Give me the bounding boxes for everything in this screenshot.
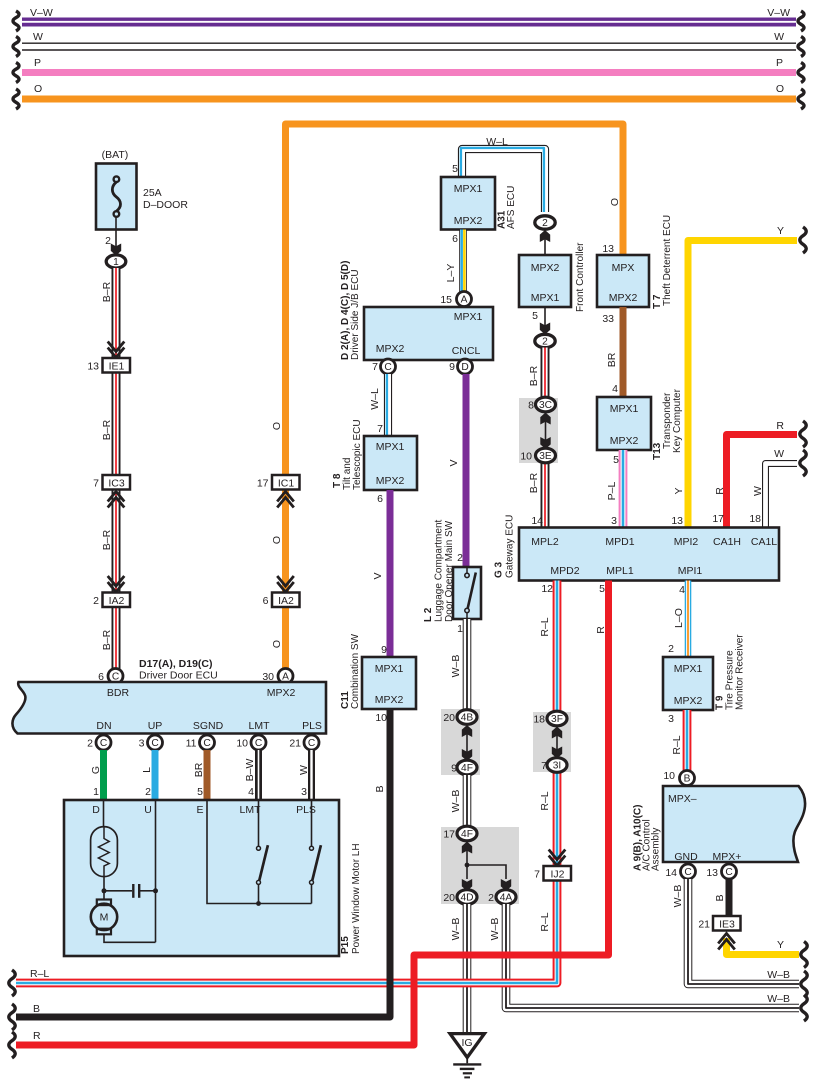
svg-text:3E: 3E <box>539 451 552 462</box>
thermistor (breaker) <box>91 800 118 900</box>
node C pin10 LMT <box>236 735 266 750</box>
svg-text:CNCL: CNCL <box>452 345 481 357</box>
svg-text:25A: 25A <box>143 187 162 199</box>
svg-text:W–B: W–B <box>672 885 684 908</box>
junction 4F 4D 4A <box>441 826 519 904</box>
svg-text:W: W <box>752 486 764 496</box>
junction 4B 4F <box>441 709 480 775</box>
svg-text:MPX2: MPX2 <box>531 262 560 274</box>
svg-text:W: W <box>774 31 784 43</box>
svg-text:4: 4 <box>679 584 685 596</box>
svg-text:B–R: B–R <box>528 365 540 386</box>
svg-text:2: 2 <box>542 337 548 348</box>
svg-text:2: 2 <box>87 738 93 750</box>
svg-text:6: 6 <box>377 493 383 505</box>
svg-text:C: C <box>308 738 315 749</box>
svg-text:Assembly: Assembly <box>651 828 662 871</box>
op T13 Transponder Key Computer <box>597 388 683 460</box>
svg-text:Driver Side J/B ECU: Driver Side J/B ECU <box>350 269 361 360</box>
node C pin21 PLS <box>289 735 319 750</box>
svg-text:A: A <box>461 295 468 306</box>
svg-text:MPX1: MPX1 <box>375 663 404 675</box>
wire B C11 to left bus <box>9 709 390 1030</box>
wire V CNCL to L2 <box>448 374 466 567</box>
svg-text:2: 2 <box>93 595 99 607</box>
svg-text:MPD1: MPD1 <box>605 536 634 548</box>
svg-text:C: C <box>255 738 262 749</box>
svg-text:33: 33 <box>602 313 614 325</box>
node C pin7 J/B <box>372 359 395 374</box>
svg-text:GND: GND <box>674 851 698 863</box>
svg-text:2: 2 <box>542 218 548 229</box>
ground IG <box>450 1034 484 1078</box>
svg-text:2: 2 <box>457 552 463 564</box>
svg-text:18: 18 <box>749 513 761 525</box>
svg-text:Theft Deterrent ECU: Theft Deterrent ECU <box>662 215 673 306</box>
svg-text:B–R: B–R <box>101 281 113 302</box>
connector IE3 <box>698 916 740 950</box>
op A31 AFS ECU box <box>441 177 517 230</box>
svg-text:M: M <box>100 912 109 924</box>
svg-text:1: 1 <box>457 623 463 635</box>
connector IC1 <box>257 422 300 508</box>
op Driver Side J/B ECU <box>340 261 493 360</box>
op A/C Control Assembly <box>633 786 806 871</box>
wire G green <box>90 750 104 800</box>
svg-text:20: 20 <box>443 892 455 904</box>
svg-text:IE1: IE1 <box>109 361 125 373</box>
svg-text:IC1: IC1 <box>278 478 295 490</box>
svg-text:R–L: R–L <box>539 912 551 931</box>
svg-text:R: R <box>595 626 607 634</box>
svg-text:R: R <box>714 487 726 495</box>
svg-text:CA1L: CA1L <box>751 536 777 548</box>
svg-text:IE3: IE3 <box>719 919 735 931</box>
connector IC3 <box>93 475 130 508</box>
svg-text:2: 2 <box>105 235 111 247</box>
bus O <box>13 83 804 109</box>
svg-text:B–R: B–R <box>528 472 540 493</box>
svg-text:C: C <box>725 867 732 878</box>
svg-text:7: 7 <box>541 760 547 772</box>
svg-text:9: 9 <box>449 361 455 373</box>
wire R-L MPD2 to left bus <box>9 581 557 997</box>
switch LMT <box>257 800 268 904</box>
svg-text:D–DOOR: D–DOOR <box>143 199 188 211</box>
svg-text:3: 3 <box>139 738 145 750</box>
svg-text:MPX2: MPX2 <box>376 343 405 355</box>
svg-text:R: R <box>776 420 784 432</box>
node A pin30 driver door ECU <box>262 669 293 684</box>
svg-text:3: 3 <box>668 713 674 725</box>
fuse 25A D-DOOR <box>96 149 188 268</box>
svg-text:4: 4 <box>612 383 618 395</box>
svg-text:D: D <box>461 362 468 373</box>
connector 2 oval top <box>535 216 555 255</box>
svg-text:B–R: B–R <box>101 419 113 440</box>
svg-text:MPX–: MPX– <box>668 793 697 805</box>
svg-text:MPX2: MPX2 <box>267 687 296 699</box>
switch PLS <box>310 800 321 904</box>
svg-text:W–B: W–B <box>450 790 462 813</box>
bus V-W <box>13 7 804 31</box>
svg-text:D17(A), D19(C): D17(A), D19(C) <box>139 658 213 670</box>
connector IE1 <box>87 342 130 373</box>
wire E inside <box>207 800 312 904</box>
wire W-B GND to right edge <box>672 879 807 997</box>
svg-text:O: O <box>776 83 784 95</box>
svg-text:18: 18 <box>533 714 545 726</box>
svg-text:9: 9 <box>451 763 457 775</box>
svg-text:C: C <box>151 738 158 749</box>
svg-text:3F: 3F <box>551 714 563 725</box>
node B pin10 A/C <box>663 770 694 786</box>
svg-text:O: O <box>609 198 621 206</box>
svg-text:2: 2 <box>668 643 674 655</box>
wire W-L A31 to connector 2 <box>452 136 545 212</box>
connector IA2 left <box>93 576 130 607</box>
svg-text:MPI2: MPI2 <box>674 536 699 548</box>
svg-text:P: P <box>34 57 41 69</box>
svg-text:10: 10 <box>375 712 387 724</box>
svg-text:1: 1 <box>113 257 119 268</box>
wire U inside <box>155 800 157 942</box>
svg-text:D: D <box>92 804 100 816</box>
svg-text:4F: 4F <box>461 763 473 774</box>
svg-text:7: 7 <box>93 478 99 490</box>
svg-text:MPX2: MPX2 <box>609 292 638 304</box>
wire BR brown <box>602 307 623 397</box>
svg-text:13: 13 <box>87 361 99 373</box>
junction dot LMT bottom <box>256 901 261 906</box>
connector IJ2 <box>534 850 571 881</box>
svg-text:MPX2: MPX2 <box>454 215 483 227</box>
svg-text:Power Window Motor LH: Power Window Motor LH <box>351 843 362 954</box>
wire BR brown <box>193 750 207 800</box>
svg-text:MPX1: MPX1 <box>531 292 560 304</box>
svg-text:8: 8 <box>528 400 534 412</box>
svg-text:MPX1: MPX1 <box>674 663 703 675</box>
svg-text:MPX1: MPX1 <box>454 311 483 323</box>
svg-text:W–B: W–B <box>767 993 790 1005</box>
svg-text:MPX1: MPX1 <box>376 441 405 453</box>
svg-text:17: 17 <box>257 478 269 490</box>
svg-text:5: 5 <box>452 163 458 175</box>
svg-text:13: 13 <box>706 867 718 879</box>
svg-text:P–L: P–L <box>606 482 618 501</box>
svg-text:3C: 3C <box>539 400 552 411</box>
svg-text:R–L: R–L <box>671 735 683 754</box>
svg-text:MPX+: MPX+ <box>713 851 742 863</box>
junction 3C 3E <box>519 397 558 463</box>
wire W to CA1L <box>749 448 806 527</box>
wire R-L T9 to B <box>668 710 687 771</box>
svg-text:MPX1: MPX1 <box>610 403 639 415</box>
svg-text:SGND: SGND <box>193 720 224 732</box>
svg-text:MPX2: MPX2 <box>375 694 404 706</box>
svg-text:Y: Y <box>777 939 784 951</box>
svg-text:Y: Y <box>777 225 784 237</box>
svg-text:4: 4 <box>248 786 254 798</box>
svg-text:W–B: W–B <box>489 918 501 941</box>
wire L-Y <box>445 230 464 293</box>
svg-text:B: B <box>684 774 691 785</box>
svg-text:3I: 3I <box>553 761 562 772</box>
wire W white <box>298 750 312 800</box>
svg-text:B–R: B–R <box>101 629 113 650</box>
svg-text:BR: BR <box>193 762 205 777</box>
svg-text:V–W: V–W <box>767 7 790 19</box>
svg-text:13: 13 <box>671 515 683 527</box>
svg-text:Y: Y <box>673 487 685 494</box>
svg-text:4A: 4A <box>500 893 513 904</box>
op T8 Tilt and Telescopic ECU <box>332 419 417 490</box>
node C pin3 UP <box>139 735 163 750</box>
svg-text:9: 9 <box>381 644 387 656</box>
svg-text:Door Opener Main SW: Door Opener Main SW <box>444 520 455 622</box>
svg-text:B: B <box>714 894 726 901</box>
svg-text:12: 12 <box>541 583 553 595</box>
svg-text:2: 2 <box>145 786 151 798</box>
svg-text:MPX2: MPX2 <box>610 435 639 447</box>
svg-text:17: 17 <box>443 829 455 841</box>
svg-text:O: O <box>271 422 283 430</box>
connector 2 oval below front controller <box>532 307 555 348</box>
svg-text:MPI1: MPI1 <box>678 565 703 577</box>
wire W-B 4D to ground <box>450 904 467 1033</box>
svg-text:CA1H: CA1H <box>713 536 741 548</box>
svg-text:5: 5 <box>532 310 538 322</box>
svg-text:Monitor Receiver: Monitor Receiver <box>735 634 746 710</box>
junction 3F 3I <box>533 711 571 772</box>
svg-text:W–B: W–B <box>450 918 462 941</box>
svg-text:MPX2: MPX2 <box>674 695 703 707</box>
svg-text:3: 3 <box>301 786 307 798</box>
svg-text:5: 5 <box>613 454 619 466</box>
svg-text:MPL1: MPL1 <box>606 565 634 577</box>
wire Y yellow to gateway <box>671 225 806 527</box>
wire V T8 to C11 <box>372 490 390 657</box>
svg-text:MPX2: MPX2 <box>376 475 405 487</box>
svg-text:C: C <box>684 867 691 878</box>
op C11 Combination SW <box>340 633 416 709</box>
svg-text:4B: 4B <box>461 713 474 724</box>
svg-text:B: B <box>374 785 386 792</box>
svg-text:7: 7 <box>372 361 378 373</box>
node C pin11 SGND <box>186 735 215 750</box>
svg-text:3: 3 <box>611 515 617 527</box>
motor M <box>91 900 156 943</box>
svg-text:15: 15 <box>440 294 452 306</box>
svg-text:2: 2 <box>488 892 494 904</box>
svg-text:R: R <box>33 1030 41 1042</box>
connector IA2 right <box>263 536 300 648</box>
svg-text:14: 14 <box>665 867 677 879</box>
node C pin2 DN <box>87 735 111 750</box>
svg-text:(BAT): (BAT) <box>102 149 129 161</box>
wire W-B 4A to right edge <box>489 904 807 1021</box>
wire W-B L2 to 4B <box>450 619 467 710</box>
svg-text:BDR: BDR <box>107 687 130 699</box>
svg-text:O: O <box>34 83 42 95</box>
svg-text:W: W <box>774 448 784 460</box>
svg-text:1: 1 <box>93 786 99 798</box>
svg-text:O: O <box>271 536 283 544</box>
svg-text:C: C <box>384 362 391 373</box>
svg-text:DN: DN <box>96 720 111 732</box>
svg-text:14: 14 <box>531 515 543 527</box>
node D pin9 J/B <box>449 359 472 374</box>
svg-text:L: L <box>141 767 153 773</box>
svg-text:V–W: V–W <box>30 7 53 19</box>
svg-text:21: 21 <box>289 738 301 750</box>
svg-text:4D: 4D <box>460 893 473 904</box>
svg-text:11: 11 <box>186 738 197 750</box>
svg-text:P15: P15 <box>340 936 351 954</box>
svg-text:R–L: R–L <box>539 791 551 810</box>
wire B MPX+ to IE3 <box>714 879 729 916</box>
svg-text:Telescopic ECU: Telescopic ECU <box>352 419 363 490</box>
svg-text:B–W: B–W <box>244 759 256 782</box>
svg-text:13: 13 <box>602 243 614 255</box>
svg-text:7: 7 <box>377 423 383 435</box>
svg-text:L–Y: L–Y <box>445 264 457 283</box>
node C pin14 GND <box>665 864 695 879</box>
svg-text:U: U <box>144 804 152 816</box>
svg-text:6: 6 <box>263 595 269 607</box>
svg-text:W–L: W–L <box>369 388 381 410</box>
svg-text:6: 6 <box>452 233 458 245</box>
wire W-B 4F to 4F <box>450 775 467 827</box>
svg-text:MPL2: MPL2 <box>531 536 559 548</box>
svg-text:MPD2: MPD2 <box>550 565 579 577</box>
svg-text:G: G <box>90 766 102 774</box>
svg-text:O: O <box>271 640 283 648</box>
svg-text:V: V <box>448 459 460 466</box>
wire P-L <box>606 450 623 527</box>
svg-text:Key Computer: Key Computer <box>672 388 683 453</box>
node C pin6 driver door ECU <box>98 669 123 684</box>
svg-text:B–R: B–R <box>101 529 113 550</box>
wire R red to CA1H <box>712 420 806 527</box>
wire W-L to T8 <box>369 374 388 436</box>
svg-text:Gateway ECU: Gateway ECU <box>505 515 516 578</box>
svg-text:20: 20 <box>443 712 455 724</box>
svg-text:Driver Door ECU: Driver Door ECU <box>139 670 218 682</box>
svg-text:W–B: W–B <box>450 655 462 678</box>
op T9 Tire Pressure Monitor Receiver <box>663 634 746 710</box>
wire B-R left chain <box>101 268 116 669</box>
node A pin15 <box>440 292 471 307</box>
op T7 Theft Deterrent ECU <box>597 198 673 309</box>
svg-text:R–L: R–L <box>539 617 551 636</box>
svg-text:W–B: W–B <box>767 969 790 981</box>
wire O main (to MPX2 and T7) <box>286 124 624 668</box>
svg-text:21: 21 <box>698 919 710 931</box>
svg-text:7: 7 <box>534 869 540 881</box>
svg-text:10: 10 <box>520 451 532 463</box>
svg-text:C: C <box>203 738 210 749</box>
svg-text:PLS: PLS <box>302 720 322 732</box>
motor P15 Power Window Motor LH <box>64 800 362 956</box>
svg-text:R–L: R–L <box>30 968 49 980</box>
svg-text:Luggage Compartment: Luggage Compartment <box>434 519 445 622</box>
svg-text:E: E <box>196 804 203 816</box>
svg-text:L–O: L–O <box>673 608 685 628</box>
svg-text:W: W <box>33 31 43 43</box>
switch L2 Luggage Compartment Door Opener Main SW <box>423 519 481 622</box>
svg-text:IA2: IA2 <box>109 595 125 607</box>
svg-text:5: 5 <box>599 583 605 595</box>
svg-text:Front Controller: Front Controller <box>575 242 586 312</box>
svg-text:5: 5 <box>197 786 203 798</box>
node C pin13 MPX+ <box>706 864 736 879</box>
svg-text:IC3: IC3 <box>108 478 125 490</box>
svg-text:P: P <box>776 57 783 69</box>
svg-text:Combination SW: Combination SW <box>350 633 361 709</box>
svg-text:B: B <box>33 1003 40 1015</box>
svg-text:IJ2: IJ2 <box>550 869 564 881</box>
svg-text:UP: UP <box>148 720 163 732</box>
svg-text:10: 10 <box>236 738 248 750</box>
svg-text:V: V <box>372 572 384 579</box>
svg-text:W–L: W–L <box>486 136 508 148</box>
svg-text:L 2: L 2 <box>423 607 434 622</box>
op Driver Door ECU <box>12 658 326 734</box>
svg-text:G 3: G 3 <box>494 561 505 578</box>
svg-text:C: C <box>100 738 107 749</box>
svg-text:17: 17 <box>712 513 724 525</box>
svg-text:IG: IG <box>461 1037 472 1049</box>
svg-text:AFS ECU: AFS ECU <box>506 186 517 229</box>
op Front Controller box <box>519 242 586 312</box>
wire B-R front controller to gateway <box>528 348 545 528</box>
svg-text:IA2: IA2 <box>278 595 294 607</box>
wire B-W <box>244 750 259 800</box>
svg-text:10: 10 <box>663 770 675 782</box>
svg-text:BR: BR <box>606 352 618 367</box>
op G3 Gateway ECU <box>494 515 780 581</box>
wire L-O MPI1 to T9 <box>668 581 688 658</box>
svg-text:4F: 4F <box>461 829 473 840</box>
svg-text:W: W <box>298 765 310 775</box>
svg-text:MPX: MPX <box>612 262 635 274</box>
svg-text:PLS: PLS <box>296 804 316 816</box>
wire R MPL1 to left bus <box>9 581 609 1059</box>
svg-text:LMT: LMT <box>249 720 271 732</box>
svg-text:MPX1: MPX1 <box>454 183 483 195</box>
bus W <box>13 31 804 57</box>
bus P <box>13 57 804 83</box>
capacitor <box>104 884 158 898</box>
wire Y IE3 to right edge <box>727 938 808 968</box>
wire L blue <box>141 750 155 800</box>
